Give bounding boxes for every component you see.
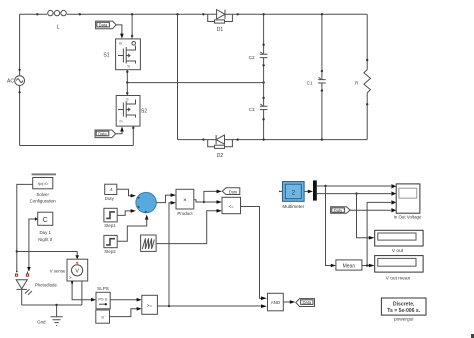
node C1 top junction <box>321 13 323 15</box>
svg-text:C: C <box>43 217 48 224</box>
separator dash <box>32 173 56 175</box>
svg-text:Step2: Step2 <box>104 249 116 254</box>
svg-text:Multimeter: Multimeter <box>282 204 304 209</box>
wire photodiode to ground rail <box>22 289 82 305</box>
wire Step2 to switch circle <box>117 220 147 242</box>
logical operator AND <box>268 293 284 311</box>
display V out mean <box>375 256 423 282</box>
wire Data tag to S2 gate <box>116 131 122 134</box>
svg-text:Product: Product <box>177 211 193 216</box>
wire >= to AND <box>157 305 261 307</box>
from tag Data (to S1 gate) <box>96 21 117 29</box>
wire clock to photodiode <box>29 219 35 267</box>
scope In Out Voltage <box>391 184 422 219</box>
svg-text:<=: <= <box>229 204 235 209</box>
node C3 top port <box>262 97 264 99</box>
svg-text:S: S <box>101 315 104 320</box>
relational operator <= <box>222 197 241 213</box>
wire mean to V out mean display <box>362 265 369 267</box>
wire solver to photodiode <box>17 184 33 271</box>
node ground tee <box>55 304 57 306</box>
inductor L <box>48 10 67 30</box>
node C2 top port <box>262 44 264 46</box>
svg-text:C3: C3 <box>249 107 255 112</box>
transistor S1 <box>103 39 140 70</box>
ground <box>37 305 62 326</box>
relational operator >= <box>142 295 158 314</box>
svg-text:powergui: powergui <box>394 317 413 323</box>
wire constant to switch circle <box>117 189 131 195</box>
node junction rail vertical <box>176 13 178 15</box>
diode D2 <box>208 135 233 159</box>
node junction rail-S1 <box>131 13 133 15</box>
svg-text:>=: >= <box>147 303 153 308</box>
node C1 bottom port <box>321 89 323 91</box>
node S1 bottom port <box>126 71 128 73</box>
node R bottom port <box>366 103 368 105</box>
transistor S2 <box>116 96 147 127</box>
svg-text:V out: V out <box>392 248 404 254</box>
svg-text:Duty: Duty <box>105 196 115 201</box>
node C3 bottom port <box>262 118 264 120</box>
svg-text:×: × <box>183 198 187 204</box>
svg-text:V: V <box>75 269 79 275</box>
switch circle (blue) <box>136 192 156 212</box>
node AC top port <box>18 69 20 71</box>
svg-text:Duty: Duty <box>229 190 238 195</box>
display V out <box>375 230 423 254</box>
diode D1 <box>208 10 233 33</box>
AC source V1 <box>7 14 24 145</box>
wire top rail <box>20 13 368 15</box>
wire bottom return rail <box>20 126 134 145</box>
node junction solver wire <box>16 250 18 252</box>
wire branch to mean <box>326 186 332 266</box>
resistor R <box>355 14 370 139</box>
product block <box>176 189 194 216</box>
svg-text:Discrete,: Discrete, <box>393 302 415 308</box>
svg-text:D2: D2 <box>217 153 224 159</box>
voltage sensor V sense <box>50 259 88 281</box>
block S gain <box>96 310 110 323</box>
wire switch circle to product <box>156 195 171 203</box>
svg-text:S1: S1 <box>103 53 109 59</box>
svg-text:Gnd: Gnd <box>37 320 46 325</box>
wire multimeter to demux <box>304 190 308 192</box>
node D2 left port <box>202 138 204 140</box>
wire product output <box>194 200 204 202</box>
node middle rail at C column <box>262 81 264 83</box>
svg-text:AC: AC <box>7 79 14 85</box>
node midpoint junction <box>126 81 128 83</box>
svg-text:Data: Data <box>98 132 107 137</box>
svg-text:>: > <box>69 275 72 280</box>
svg-text:C2: C2 <box>249 55 255 60</box>
node C1 top port <box>321 70 323 72</box>
svg-text:S2: S2 <box>141 109 147 115</box>
node L left port <box>36 13 38 15</box>
svg-text:Mean: Mean <box>343 264 356 270</box>
repeating sequence sawtooth <box>141 235 157 251</box>
wire SLPS to relational operator <box>110 299 137 301</box>
wire junction up to product <box>169 203 171 306</box>
node C column top junction <box>262 13 264 15</box>
node D1 left port <box>202 13 204 15</box>
goto tag Data <box>296 299 315 307</box>
powergui block <box>381 298 426 323</box>
wire sawtooth to <= <box>156 211 217 244</box>
svg-text:m: m <box>120 120 123 124</box>
multimeter <box>279 182 305 209</box>
svg-text:L: L <box>57 25 60 31</box>
capacitor C3 <box>249 104 268 140</box>
demux <box>313 180 317 200</box>
svg-text:Day 1: Day 1 <box>39 230 51 235</box>
node C column bottom junction <box>262 138 264 140</box>
svg-text:C1: C1 <box>307 80 313 85</box>
svg-text:Step1: Step1 <box>104 223 116 228</box>
svg-text:Duty: Duty <box>334 208 343 213</box>
wire D2 output row <box>178 139 368 141</box>
node S2 top port <box>126 92 128 94</box>
svg-text:m: m <box>119 42 122 46</box>
node D2 right port <box>237 138 239 140</box>
svg-text:Data: Data <box>99 23 108 28</box>
from tag Duty <box>331 207 351 214</box>
wire demux out1 to scope <box>317 185 391 187</box>
svg-text:2: 2 <box>291 190 295 197</box>
wire V sense to SLPS <box>72 281 91 300</box>
wire AND to Data goto <box>283 301 290 303</box>
step source Step2 <box>104 235 117 254</box>
svg-text:R: R <box>355 81 359 86</box>
wire middle rail to capacitors <box>127 82 263 84</box>
node junction mean output <box>366 264 368 266</box>
node S2 drain port <box>132 127 134 129</box>
svg-text:SLPS: SLPS <box>97 286 109 291</box>
node junction product output <box>203 201 205 203</box>
constant .4 <box>105 184 117 201</box>
node C2 bottom port <box>262 64 264 66</box>
node S1 top port <box>131 35 133 37</box>
node C1 bottom junction <box>321 138 323 140</box>
wire <= to AND <box>241 207 262 299</box>
wire product to <= <box>204 201 217 203</box>
svg-text:V sense: V sense <box>50 268 66 273</box>
SLPS converter <box>96 286 110 309</box>
svg-text:Ts = 5e-006 s.: Ts = 5e-006 s. <box>387 308 420 314</box>
svg-text:PS S: PS S <box>98 296 107 301</box>
svg-text:Solver: Solver <box>36 192 49 197</box>
wire product to Duty goto <box>204 191 217 202</box>
wire to V sense top <box>17 252 77 256</box>
wire Data tag to S1 gate <box>116 25 122 34</box>
node D1 right port <box>237 13 239 15</box>
node AC bottom port <box>18 91 20 93</box>
node junction >= output <box>168 305 170 307</box>
svg-text:S: S <box>127 64 130 68</box>
mean block <box>336 260 362 270</box>
goto tag Duty <box>222 188 240 195</box>
step source Step1 <box>104 208 117 228</box>
corner mark <box>471 334 474 338</box>
wire S to relational operator <box>110 309 137 317</box>
svg-text:Night 0: Night 0 <box>38 237 52 242</box>
wire S1 to S2 <box>126 70 128 96</box>
capacitor C1 <box>307 14 326 139</box>
wire mean branch to scope <box>367 202 391 265</box>
svg-text:In Out Voltage: In Out Voltage <box>394 214 422 219</box>
clock C (Day/Night) <box>38 212 53 242</box>
wire Duty tag to scope <box>350 209 391 211</box>
node junction vout branch <box>355 192 357 194</box>
svg-text:AND: AND <box>271 300 280 305</box>
svg-text:Data: Data <box>302 300 311 305</box>
node R top port <box>366 59 368 61</box>
svg-text:D1: D1 <box>217 27 224 33</box>
from tag Data (to S2 gate) <box>95 130 116 138</box>
wire V sense to ground rail <box>81 281 83 305</box>
wire Step1 to switch circle <box>117 211 131 216</box>
node L right port <box>79 13 81 15</box>
svg-text:Configuration: Configuration <box>30 199 57 204</box>
wire demux out2 to scope <box>317 193 391 195</box>
photodiode D3 <box>15 271 57 295</box>
solver configuration U10 <box>30 178 57 204</box>
svg-text:V out mean: V out mean <box>386 275 411 281</box>
wire drop rail to S1 <box>131 14 133 39</box>
svg-text:.4: .4 <box>109 187 113 192</box>
wire right vertical (node A to D2 row) <box>177 14 179 139</box>
wire branch to V out display <box>357 194 370 238</box>
svg-text:Photodiode: Photodiode <box>35 283 58 288</box>
capacitor C2 <box>249 14 268 106</box>
node junction mean branch <box>324 185 326 187</box>
svg-text:f(x)=0: f(x)=0 <box>38 182 48 186</box>
